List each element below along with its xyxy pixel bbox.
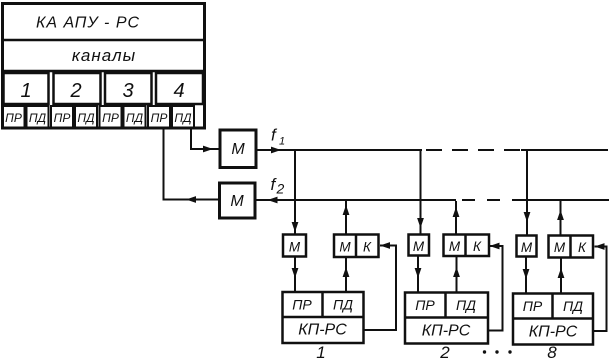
wire М to ПР station 1: [292, 257, 299, 293]
terminal block КП-РС station 1: [283, 292, 364, 343]
block КА АПУ-РС satellite table outer frame: [3, 4, 205, 129]
wire f1 drop to М station 2: [417, 150, 424, 235]
svg-text:М: М: [339, 240, 351, 255]
svg-text:ПР: ПР: [54, 111, 71, 125]
svg-text:К: К: [473, 239, 482, 254]
wire f1 drop to М station 8: [524, 150, 531, 236]
label f2: [271, 175, 285, 197]
svg-text:ПР: ПР: [102, 111, 119, 125]
cell ПР channel 2: [51, 106, 73, 128]
cell ПД channel 1: [27, 106, 49, 128]
wire ПД to МК station 1: [343, 257, 350, 292]
svg-text:8: 8: [547, 343, 557, 362]
svg-text:КП-РС: КП-РС: [298, 322, 347, 339]
terminal block КП-РС station 2: [405, 293, 488, 344]
cell ПД channel 2: [75, 106, 97, 128]
wire М to ПР station 2: [415, 256, 422, 293]
svg-text:К: К: [578, 240, 587, 255]
cell ПД channel 3: [124, 106, 146, 128]
svg-text:ПД: ПД: [77, 111, 95, 125]
wire f1 drop to М station 1: [292, 150, 299, 234]
svg-text:2: 2: [69, 80, 81, 102]
channel cell 4: [156, 73, 203, 104]
feedback wire КП-РС to К station 8: [593, 243, 607, 331]
svg-text:М: М: [231, 141, 245, 158]
label f1: [271, 126, 285, 148]
ellipsis dots: [483, 350, 512, 353]
modulator-coder МК station 8: [549, 236, 594, 258]
svg-text:1: 1: [20, 80, 31, 102]
svg-text:1: 1: [279, 136, 285, 148]
svg-text:каналы: каналы: [72, 46, 136, 65]
svg-text:ПД: ПД: [333, 297, 353, 313]
svg-text:М: М: [413, 239, 425, 254]
svg-text:ПД: ПД: [563, 298, 583, 314]
wire МК to f2 station 2: [453, 201, 460, 235]
wire М to ПР station 8: [523, 257, 530, 294]
svg-text:3: 3: [122, 80, 133, 102]
svg-text:ПР: ПР: [292, 297, 312, 313]
svg-text:2: 2: [276, 181, 285, 197]
demodulator М station 1: [283, 235, 306, 257]
wire МК to f2 station 1: [343, 201, 350, 235]
svg-text:ПР: ПР: [415, 297, 435, 313]
wire ПД to МК station 8: [558, 258, 565, 294]
svg-text:М: М: [230, 193, 244, 210]
svg-text:ПР: ПР: [523, 298, 543, 314]
wire f1 bus: [256, 147, 608, 154]
demodulator М station 2: [409, 235, 430, 256]
svg-text:М: М: [521, 240, 533, 255]
modulator-coder МК station 1: [334, 235, 379, 258]
modulator-coder МК station 2: [444, 235, 490, 257]
wire М2 to ПР4: [164, 129, 220, 203]
svg-text:1: 1: [316, 343, 325, 362]
cell ПД channel 4: [172, 106, 194, 128]
svg-text:М: М: [449, 239, 461, 254]
svg-text:К: К: [363, 240, 372, 255]
svg-text:ПД: ПД: [29, 111, 47, 125]
svg-text:М: М: [289, 240, 301, 255]
channel cell 3: [105, 73, 152, 104]
svg-text:ПД: ПД: [126, 111, 144, 125]
cell ПР channel 1: [3, 106, 25, 128]
svg-text:ПД: ПД: [174, 111, 192, 125]
svg-text:ПД: ПД: [456, 297, 476, 313]
modulator М1: [220, 130, 256, 168]
channel cell 1: [4, 73, 49, 104]
wire ПД4 to М1: [191, 129, 220, 153]
cell ПР channel 3: [100, 106, 122, 128]
feedback wire КП-РС to К station 2: [488, 243, 503, 331]
wire МК to f2 station 8: [557, 201, 564, 236]
row divider under КА АПУ-РС: [2, 39, 206, 42]
svg-text:4: 4: [173, 80, 184, 102]
wire ПД to МК station 2: [453, 256, 460, 293]
row divider under каналы: [2, 70, 206, 73]
cell ПР channel 4: [148, 106, 170, 128]
svg-text:М: М: [554, 240, 566, 255]
channel cell 2: [54, 73, 101, 104]
demodulator М station 8: [517, 236, 537, 257]
feedback wire КП-РС to К station 1: [364, 242, 397, 330]
svg-text:КП-РС: КП-РС: [529, 324, 578, 341]
svg-text:2: 2: [439, 343, 450, 362]
svg-text:ПР: ПР: [151, 111, 168, 125]
modulator М2: [220, 183, 256, 218]
svg-text:КП-РС: КП-РС: [422, 323, 471, 340]
terminal block КП-РС station 8: [513, 294, 593, 345]
svg-text:f: f: [271, 126, 278, 145]
svg-text:КА АПУ - РС: КА АПУ - РС: [36, 15, 140, 32]
wire f2 bus: [255, 197, 609, 204]
svg-text:ПР: ПР: [5, 111, 22, 125]
